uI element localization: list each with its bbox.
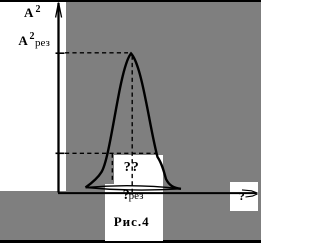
white label box omega1-omega2 [114, 155, 164, 186]
x-axis arrowhead [242, 190, 258, 197]
plot gray area [66, 2, 261, 191]
tick at A2rez level [56, 52, 65, 54]
label A^2 [24, 6, 33, 19]
dashed vertical at resonance [131, 56, 133, 193]
white label box at x-axis arrow [230, 182, 259, 211]
dashed horizontal at A2rez to peak [65, 52, 128, 54]
base lens upper arc [86, 186, 182, 189]
tick at half-power level [56, 152, 65, 154]
label A^2 rez [18, 34, 27, 47]
caption Ris.4 [114, 215, 150, 228]
label omega at axis arrow (rendered as ?) [239, 190, 245, 202]
base lens lower arc [86, 188, 182, 191]
label omega1 omega2 (rendered as ??) [124, 161, 140, 175]
dashed horizontal at half-power [65, 152, 157, 154]
label omega rez (rendered as ? rez) [123, 189, 130, 203]
white label box omega-rez / Ris.4 [105, 184, 163, 241]
y-axis arrowhead [56, 3, 62, 18]
top border [0, 0, 261, 2]
resonance bell curve [86, 54, 182, 189]
y-axis line [57, 3, 59, 193]
dashed vertical at omega1 [111, 154, 113, 183]
bottom gray band [0, 191, 261, 241]
x-axis line [58, 192, 257, 194]
bottom border [0, 240, 261, 243]
